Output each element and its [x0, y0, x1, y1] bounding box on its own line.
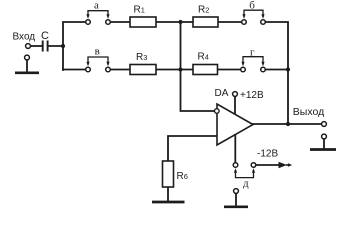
svg-text:3: 3 [143, 53, 147, 62]
terminal +12V [233, 92, 238, 97]
resistor R4 [193, 52, 218, 75]
wire R3 to R4 through node C [156, 69, 193, 71]
svg-text:г: г [250, 47, 255, 59]
ground R6 [152, 201, 185, 204]
wire switch g to right column [265, 69, 288, 71]
wire input to capacitor [31, 45, 42, 47]
wire input lower terminal to ground [26, 60, 28, 72]
wire op-amp top pin [234, 97, 236, 116]
node D junction [286, 67, 290, 71]
wire output [253, 123, 322, 125]
switch g [241, 47, 266, 72]
wire switch d to -12V arrow [256, 164, 279, 166]
svg-text:2: 2 [205, 6, 209, 15]
terminal output [322, 122, 327, 127]
svg-text:д: д [243, 178, 249, 190]
resistor R3 [130, 52, 156, 75]
svg-text:Вход: Вход [13, 32, 36, 43]
svg-text:R: R [177, 171, 184, 182]
wire node A vertical branch [63, 22, 86, 70]
arrow to -12V [279, 162, 293, 168]
terminal input [26, 44, 31, 49]
ground below switch d [224, 205, 248, 208]
terminal output ground [322, 134, 327, 139]
switch b [242, 0, 266, 24]
svg-text:C: C [41, 30, 49, 42]
resistor R6 [163, 161, 188, 187]
op-amp U1 DA [215, 88, 254, 145]
ground input [15, 71, 39, 74]
resistor R1 [130, 5, 156, 28]
svg-text:4: 4 [205, 53, 209, 62]
wire R4 to switch g [218, 69, 241, 71]
wire R1 to R2 through node B [156, 21, 193, 23]
svg-text:DA: DA [215, 88, 229, 99]
wire terminal below switch d to ground [235, 194, 237, 207]
node C junction [178, 67, 182, 71]
switch d [233, 163, 256, 190]
wire inverting input column [181, 22, 215, 111]
switch v [86, 46, 111, 72]
svg-text:+12В: +12В [240, 90, 264, 101]
wire R2 to switch b [218, 21, 242, 23]
node A junction [61, 44, 65, 48]
node E junction output [286, 122, 290, 126]
wire switch v to R3 [110, 69, 130, 71]
resistor R2 [193, 5, 218, 28]
wire R6 to ground [167, 187, 169, 201]
wire node A to switch v [63, 69, 86, 71]
ground output [310, 148, 336, 151]
wire non-inverting input [168, 136, 217, 161]
wire op-amp bottom pin [234, 133, 236, 163]
wire capacitor to node A [49, 45, 64, 47]
svg-text:-12В: -12В [257, 149, 278, 160]
wire output lower terminal to ground [323, 139, 325, 149]
switch a [86, 0, 111, 24]
svg-text:6: 6 [184, 172, 188, 181]
svg-text:R: R [198, 52, 205, 63]
svg-text:R: R [136, 52, 143, 63]
svg-text:в: в [95, 46, 100, 58]
svg-text:Выход: Выход [293, 106, 324, 118]
capacitor C [43, 41, 48, 52]
terminal input ground [25, 55, 30, 60]
svg-text:1: 1 [141, 6, 145, 15]
svg-text:R: R [134, 5, 141, 16]
terminal below switch d [234, 189, 239, 194]
wire switch b to right column [265, 22, 288, 124]
node B junction [178, 20, 182, 24]
svg-text:б: б [249, 0, 255, 12]
svg-text:а: а [94, 0, 99, 12]
wire switch a to R1 [110, 21, 130, 23]
svg-text:R: R [198, 5, 205, 16]
